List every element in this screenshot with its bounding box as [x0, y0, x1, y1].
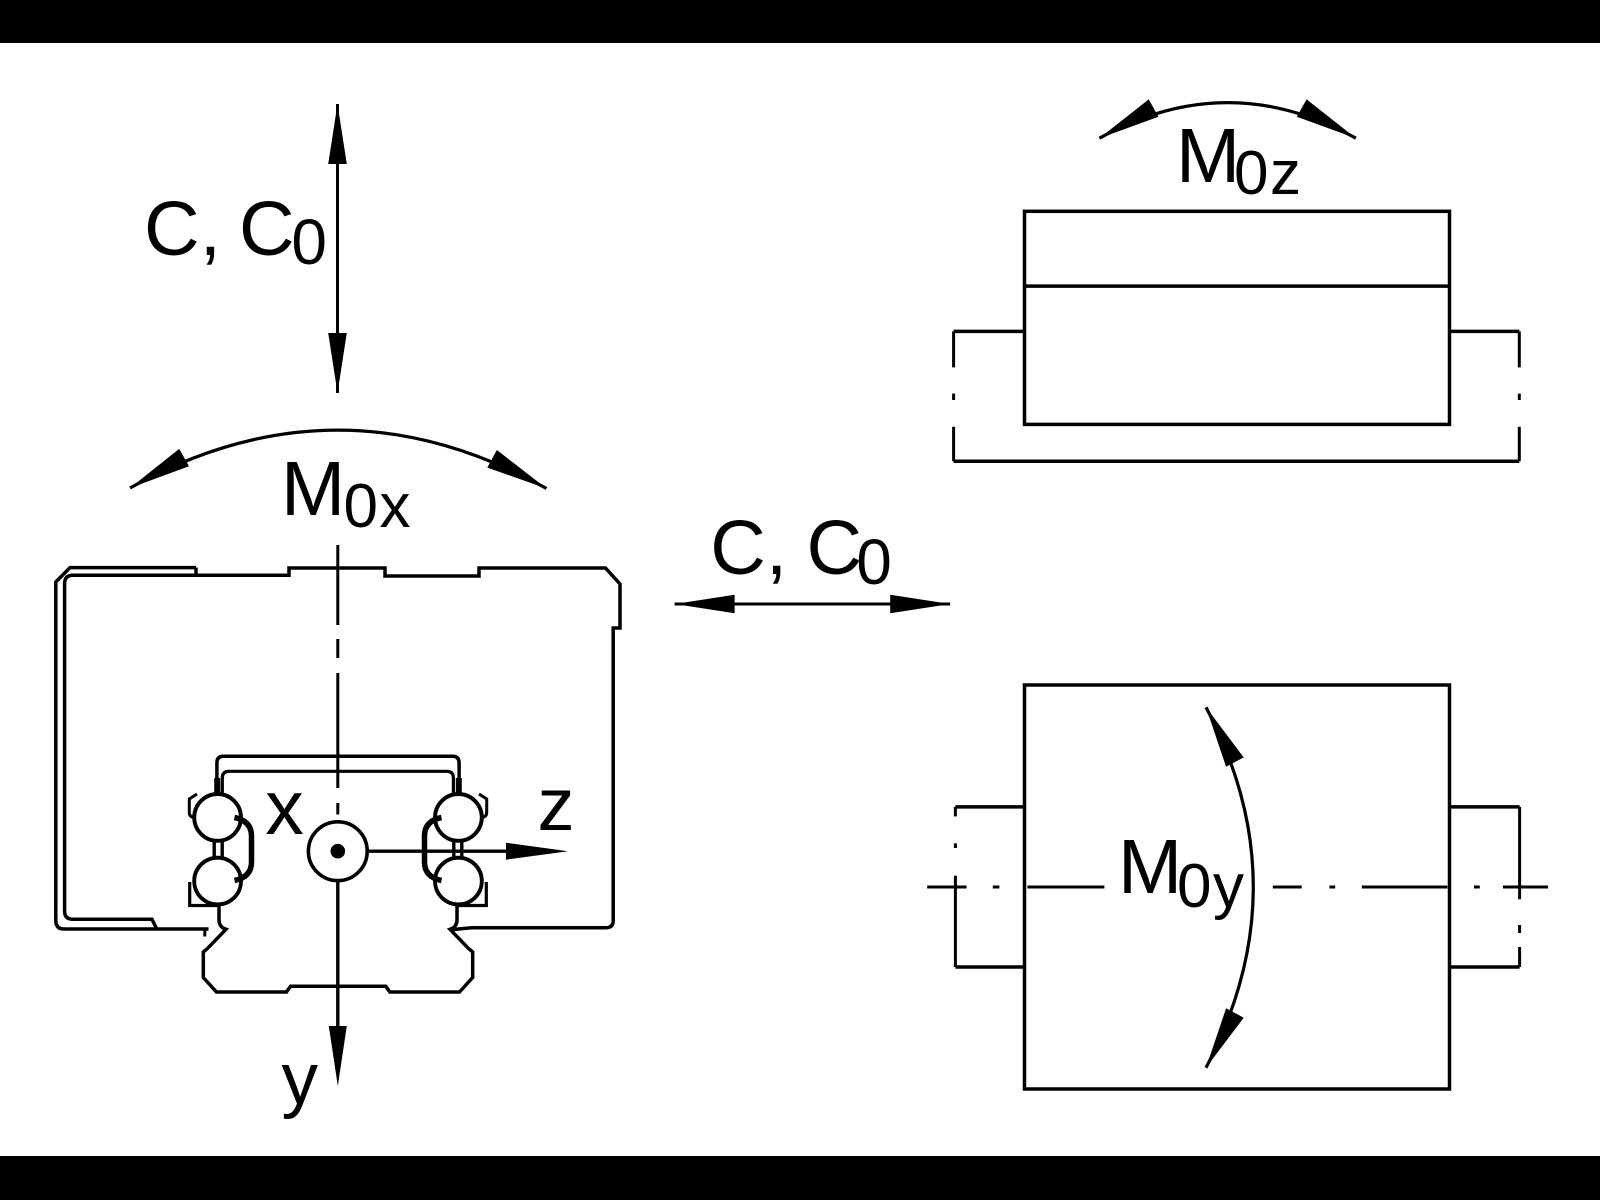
rail stub left top line — [955, 805, 1024, 809]
carriage rectangle — [1025, 685, 1450, 1089]
svg-text:0y: 0y — [1177, 852, 1245, 921]
carriage lower lip tab left — [203, 929, 206, 937]
y axis arrowhead — [329, 1026, 347, 1086]
svg-text:C: C — [807, 505, 863, 591]
rail bottom edge — [954, 459, 1520, 463]
rail head thick vertical right — [456, 778, 462, 796]
ball connector lines left pair — [212, 842, 215, 858]
svg-text:0z: 0z — [1234, 139, 1302, 208]
rail stub right edge dash-dot — [1518, 807, 1521, 967]
arrowhead left — [675, 595, 735, 614]
origin symbol circle — [308, 822, 367, 881]
arrowhead M0x left — [130, 449, 189, 488]
vertical dash-dot centerline — [336, 545, 339, 815]
carriage divider line — [1025, 284, 1450, 288]
ball track bracket left pair — [235, 818, 252, 881]
svg-text:M: M — [1118, 824, 1182, 910]
arrowhead M0x right — [487, 450, 546, 489]
svg-text:M: M — [1176, 113, 1240, 199]
arrowhead M0y top — [1206, 707, 1244, 767]
rail right edge dash-dot — [1518, 331, 1521, 461]
rail top edge right — [1450, 330, 1520, 334]
arrowhead down — [328, 333, 347, 393]
svg-text:y: y — [282, 1039, 319, 1120]
svg-text:x: x — [265, 765, 304, 851]
svg-text:C,: C, — [710, 505, 787, 591]
arc M0x — [130, 430, 547, 488]
rail stub right bottom line — [1450, 965, 1520, 969]
seal hook bottom-left — [190, 882, 218, 906]
rail stub left edge dash-dot — [954, 807, 957, 967]
seal hook bottom-right — [458, 882, 486, 906]
arrowhead up — [328, 104, 347, 164]
carriage outer seal plate (left/top/bottom) — [56, 568, 209, 929]
rail top edge left — [954, 330, 1025, 334]
y axis line — [336, 882, 339, 1026]
rail left edge dash-dot — [952, 331, 955, 461]
ball connector lines right pair — [452, 842, 455, 858]
rail stub right top line — [1450, 805, 1520, 809]
carriage main outline — [65, 568, 620, 930]
top letterbox bar — [0, 0, 1600, 43]
rail head thick vertical left — [214, 778, 220, 796]
seal hook top-left — [189, 794, 197, 818]
svg-text:z: z — [538, 763, 575, 846]
horizontal dash-dot centerline — [927, 886, 1548, 889]
svg-text:C,: C, — [144, 186, 221, 272]
rail lower profile (waist and base) — [203, 904, 472, 993]
svg-text:C: C — [239, 186, 295, 272]
rail head top plate inner line — [222, 771, 453, 795]
M0z arc — [1099, 103, 1356, 139]
rail head top plate outer — [217, 756, 459, 795]
bottom letterbox bar — [0, 1156, 1600, 1200]
arrow C,C0 horizontal line — [675, 603, 951, 606]
rail stub left bottom line — [955, 965, 1024, 969]
M0y arc — [1206, 707, 1253, 1068]
arrow C,C0 vertical line — [336, 104, 339, 393]
z axis arrowhead — [506, 843, 568, 860]
arrowhead M0y bottom — [1206, 1008, 1244, 1068]
ball track bracket right pair — [425, 818, 442, 881]
seal plate step connector — [194, 568, 198, 576]
seal hook top-right — [479, 794, 487, 818]
arrowhead right — [890, 595, 950, 614]
origin dot — [331, 844, 346, 859]
z axis line — [368, 850, 510, 853]
ball bottom-left — [194, 858, 241, 905]
svg-text:0: 0 — [291, 206, 327, 278]
arrowhead M0z right — [1297, 99, 1356, 138]
svg-text:0x: 0x — [344, 472, 412, 541]
svg-text:M: M — [281, 446, 345, 532]
arrowhead M0z left — [1099, 99, 1158, 138]
svg-text:0: 0 — [856, 526, 892, 598]
ball bottom-right — [435, 858, 482, 905]
carriage rectangle — [1025, 211, 1450, 424]
ball top-right — [435, 794, 482, 841]
ball top-left — [194, 794, 241, 841]
